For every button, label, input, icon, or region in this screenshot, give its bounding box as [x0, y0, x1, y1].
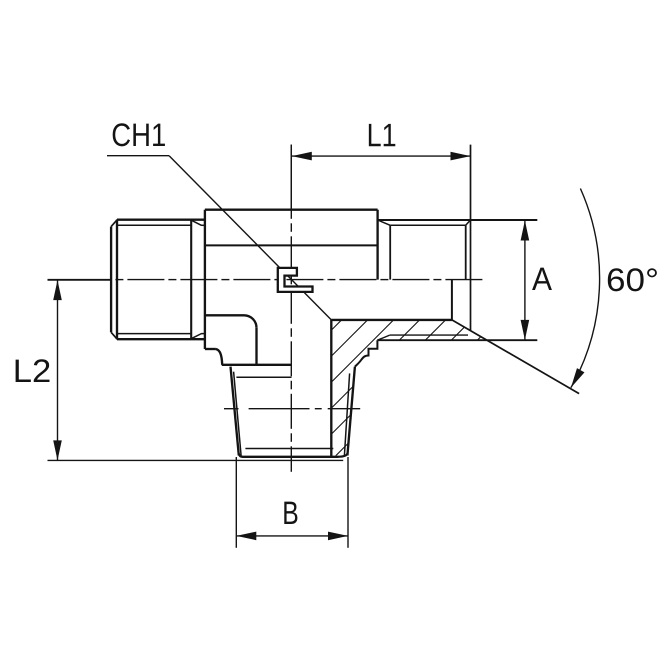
- right port: chamfer diag left: [378, 220, 391, 225]
- 60 degree arc: [571, 189, 600, 388]
- svg-text:CH1: CH1: [111, 117, 166, 153]
- left port: thread root top: [117, 224, 191, 226]
- L2 bottom extension: [48, 459, 344, 461]
- body inner shoulder: [205, 314, 244, 316]
- svg-text:A: A: [532, 261, 552, 297]
- cone seat line 60deg: [452, 320, 579, 394]
- left port: runout diag top: [191, 220, 201, 225]
- right port: runout vertical: [389, 225, 391, 279]
- L1 dimension line: [292, 155, 471, 157]
- body bottom-left edge: [205, 348, 216, 350]
- right port: crest top + A top extension: [378, 219, 538, 221]
- left port: crest bottom: [117, 338, 205, 340]
- branch shoulder line: [222, 364, 292, 366]
- CH1 leader: [107, 156, 331, 320]
- branch thread shoulder: [236, 376, 291, 378]
- CH1 marker symbol: [278, 268, 313, 292]
- left port: chamfer diag top-left: [111, 220, 117, 227]
- body left edge: [204, 210, 206, 349]
- body fillet: [244, 315, 257, 328]
- right port: chamfer diag right: [466, 220, 471, 225]
- right port: thread chamfer vertical at face: [465, 225, 467, 279]
- staircase profile: [355, 340, 378, 367]
- centerline branch tick: [224, 408, 239, 410]
- branch taper crest right: [347, 367, 355, 456]
- body cove curve: [216, 349, 222, 365]
- body top edge: [205, 209, 378, 211]
- left port: runout diag bottom: [191, 334, 201, 339]
- svg-text:L2: L2: [13, 353, 52, 389]
- B dimension line: [236, 535, 348, 537]
- left port: thread root bottom: [117, 333, 191, 335]
- branch taper crest left: [231, 367, 239, 456]
- L2 top extension (centerline ext): [48, 279, 111, 281]
- flange inner vertical below centerline: [451, 280, 453, 320]
- 60 arc arrow: [571, 368, 585, 388]
- B left extension: [235, 457, 237, 548]
- centerline vertical (branch axis): [290, 145, 292, 472]
- left port: left face: [110, 227, 112, 333]
- body hex line: [205, 244, 378, 246]
- branch bottom face: [239, 454, 347, 457]
- branch bore vertical (section): [330, 320, 332, 457]
- L2 arrows: [53, 280, 62, 300]
- L1 arrows: [292, 152, 312, 161]
- left port: crest top: [117, 219, 205, 221]
- flange washer chamfer line A: [390, 334, 468, 336]
- branch taper root right: [344, 373, 349, 455]
- A arrows: [521, 221, 530, 241]
- svg-text:L1: L1: [367, 117, 397, 153]
- svg-text:B: B: [282, 495, 299, 531]
- left port: chamfer diag bottom-left: [111, 332, 117, 339]
- body right edge: [376, 210, 378, 280]
- flange chamfer left diag: [377, 335, 389, 340]
- branch bottom chamfer line: [245, 448, 333, 450]
- flange top edge (section): [331, 319, 452, 321]
- centerline horizontal (main axis): [48, 279, 483, 281]
- left port: thread end vertical: [190, 220, 192, 340]
- right port: face + L1 extension: [470, 145, 472, 331]
- B arrows: [236, 532, 256, 541]
- body neck vertical: [255, 328, 257, 365]
- L1 left extension: [290, 145, 292, 210]
- branch taper root left: [234, 372, 242, 456]
- right port: thread root line: [390, 224, 466, 226]
- flange bottom + A bottom extension: [377, 339, 537, 341]
- A dimension line: [524, 220, 526, 340]
- B right extension: [347, 457, 349, 548]
- L2 dimension line: [57, 280, 59, 460]
- svg-text:60°: 60°: [606, 262, 659, 298]
- left port: chamfer edge vertical: [116, 220, 118, 340]
